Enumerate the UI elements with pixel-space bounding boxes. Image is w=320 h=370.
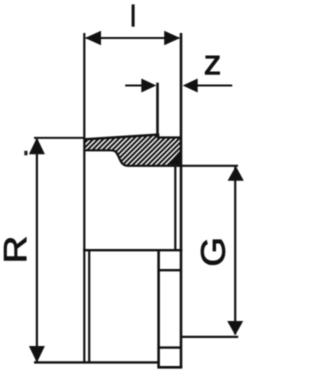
section bottom boundary with S-curve step: [84, 150, 181, 166]
dimension l left arrowhead: [85, 31, 101, 45]
section hatch fill: [84, 135, 181, 166]
R top arrowhead: [29, 138, 45, 155]
label z: [205, 56, 219, 74]
label l: [132, 4, 135, 26]
collar lower line: [159, 346, 181, 348]
label G (rotated): [201, 240, 225, 265]
z right arrowhead: [183, 79, 198, 93]
section corner fill triangle: [168, 150, 182, 165]
G dimension line: [234, 167, 236, 335]
G top leader / section bottom: [181, 165, 238, 167]
G top arrowhead: [228, 166, 244, 181]
lower body left edge: [88, 250, 90, 362]
part top edge step: [157, 134, 159, 138]
collar bottom edge: [157, 366, 182, 369]
inner thread line right: [174, 166, 176, 250]
z right leader: [197, 85, 232, 87]
z tick extension line: [156, 83, 159, 137]
dimension l line: [86, 37, 179, 39]
G bottom leader: [181, 336, 238, 338]
R bottom arrowhead: [29, 346, 45, 363]
dimension l right arrowhead: [164, 31, 180, 45]
G bottom arrowhead: [227, 321, 243, 335]
R dimension line: [36, 139, 38, 362]
collar upper line: [159, 269, 181, 271]
label R (rotated): [4, 237, 26, 260]
z left arrowhead: [141, 79, 156, 93]
part top edge (cone slant): [84, 135, 158, 140]
part top edge right (thread end face): [157, 136, 181, 138]
collar left edge: [157, 250, 160, 367]
R top leader: [34, 137, 85, 139]
z left leader: [125, 85, 142, 87]
stray speck: [24, 151, 27, 156]
left body edge / extension line: [83, 33, 85, 363]
mid shoulder line: [83, 249, 182, 251]
R bottom leader / body bottom edge: [34, 361, 159, 363]
right body edge / extension line: [180, 33, 183, 367]
